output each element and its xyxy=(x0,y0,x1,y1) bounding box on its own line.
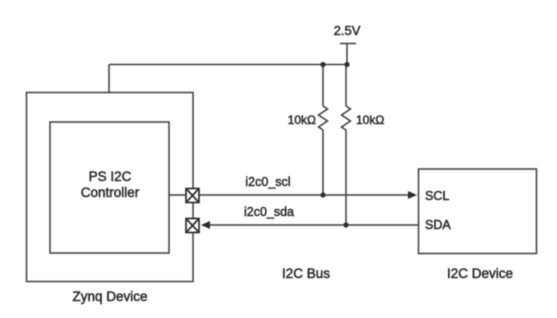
arrowhead into SCL pin of I2C Device xyxy=(408,191,417,199)
resistor R2 10k pull-up SDA xyxy=(342,65,351,226)
caption Zynq Device xyxy=(72,289,147,304)
net label i2c0_scl xyxy=(245,175,290,189)
svg-text:10kΩ: 10kΩ xyxy=(356,113,384,127)
wire i2c0_sda net xyxy=(208,224,418,226)
wire i2c0_scl net xyxy=(169,194,410,196)
junction node: R1 / scl wire xyxy=(320,192,325,197)
svg-text:Zynq Device: Zynq Device xyxy=(72,289,147,304)
svg-text:10kΩ: 10kΩ xyxy=(288,113,316,127)
wire pull-up rail horizontal to 2.5V xyxy=(109,64,348,66)
junction node: rail / R1 xyxy=(320,62,325,67)
pin label SCL xyxy=(425,189,449,203)
power supply 2.5V symbol xyxy=(340,44,356,65)
svg-text:I2C Device: I2C Device xyxy=(447,266,513,281)
svg-text:2.5V: 2.5V xyxy=(334,23,361,38)
svg-text:i2c0_sda: i2c0_sda xyxy=(244,205,294,219)
svg-text:I2C Bus: I2C Bus xyxy=(282,266,330,281)
svg-text:PS I2C: PS I2C xyxy=(89,169,132,184)
net label i2c0_sda xyxy=(244,205,294,219)
IO buffer X1 (SCL pad) xyxy=(186,189,199,203)
svg-text:SDA: SDA xyxy=(425,218,451,232)
svg-text:i2c0_scl: i2c0_scl xyxy=(245,175,290,189)
IO buffer X2 (SDA pad) xyxy=(186,219,199,233)
svg-text:SCL: SCL xyxy=(425,189,449,203)
text PS I2C Controller xyxy=(81,169,140,200)
arrowhead into SDA buffer of Zynq xyxy=(201,221,210,229)
label 2.5V supply xyxy=(334,23,361,38)
svg-text:Controller: Controller xyxy=(81,185,140,200)
junction node: R2 / sda wire xyxy=(343,222,348,227)
pin label SDA xyxy=(425,218,451,232)
wire top vertical from Zynq box to pull-up rail xyxy=(108,65,110,93)
value label 10k R2 xyxy=(356,113,384,127)
caption I2C Bus xyxy=(282,266,330,281)
PS I2C Controller inner box U1 xyxy=(50,122,169,253)
resistor R1 10k pull-up SCL xyxy=(319,65,328,196)
caption I2C Device xyxy=(447,266,513,281)
value label 10k R1 xyxy=(288,113,316,127)
I2C Device box U2 xyxy=(419,169,537,254)
Zynq Device outer box xyxy=(27,93,194,282)
junction node: rail / R2 / supply xyxy=(344,62,349,67)
